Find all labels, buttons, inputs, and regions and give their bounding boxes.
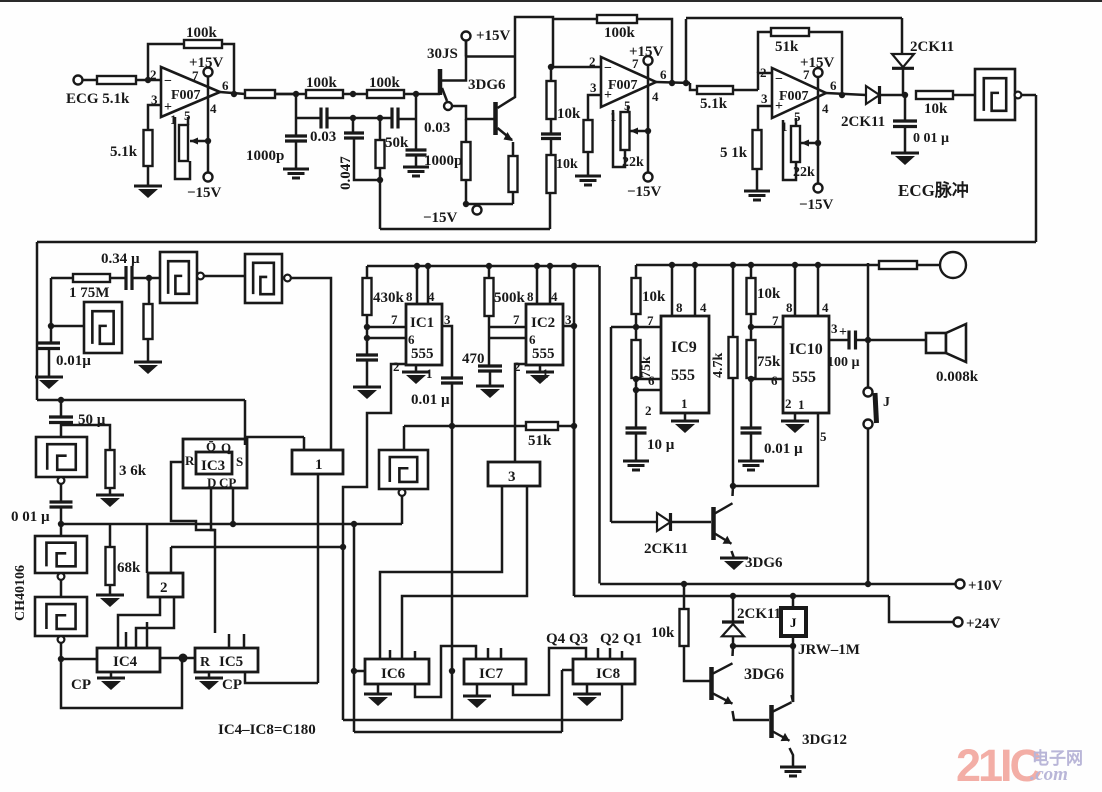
wire Q4 collector up	[792, 646, 794, 702]
node IC2 pin8 rail	[534, 263, 540, 269]
label IC2 pin1	[542, 366, 549, 381]
wire osc node left	[51, 277, 73, 280]
wire R1 to op-amp U1 pin2	[136, 79, 161, 82]
label 30JS	[427, 46, 458, 62]
wire IC2 pin4 stub	[549, 266, 552, 304]
resistor 50k	[376, 140, 385, 168]
schmitt trigger ECG out	[975, 69, 1021, 120]
wire y524 to IC6 col	[353, 524, 356, 732]
svg-text:ECG 5.1k: ECG 5.1k	[66, 91, 130, 107]
schmitt S5 out nub	[58, 477, 65, 484]
svg-text:51k: 51k	[775, 39, 799, 55]
U2 -15V terminal	[644, 173, 653, 182]
resistor 100k feedback U1	[184, 40, 222, 48]
label Q1	[623, 631, 642, 647]
wire IC9 pin4 stub	[694, 265, 697, 316]
IC4 box	[97, 648, 160, 672]
ground below 1000p second	[403, 167, 429, 176]
label IC10 pin4	[822, 300, 829, 315]
U1 +15V terminal	[204, 68, 213, 77]
wiper arrowhead U3	[801, 140, 809, 147]
wire diode to Q2 base	[671, 521, 712, 524]
IC5 box	[195, 648, 258, 672]
wire 1000p2 bottom	[415, 155, 418, 167]
potentiometer U3 offset	[791, 126, 800, 162]
svg-text:6: 6	[660, 67, 667, 82]
wire IC8 gnd stub	[586, 684, 589, 694]
svg-text:.com: .com	[1030, 761, 1068, 785]
wire 30JS top stub	[465, 40, 468, 57]
-15V terminal row1	[473, 206, 482, 215]
wire 75k IC10 down	[750, 378, 753, 428]
label 0.01u IC10	[764, 441, 803, 457]
wire box3 right bottom	[402, 486, 527, 659]
svg-text:5: 5	[820, 429, 827, 444]
wire IC4 stub d	[125, 632, 128, 648]
IC8 box	[573, 659, 635, 684]
svg-text:6: 6	[529, 332, 536, 347]
wire +24V branch	[889, 596, 953, 622]
label U1 minus	[164, 74, 172, 89]
wire 51k line to schmittD	[403, 426, 406, 450]
wire 3.6k top	[61, 425, 110, 450]
ground 10u	[623, 461, 649, 470]
wire 430k to pin7 node	[366, 315, 369, 355]
capacitor 50u	[49, 417, 73, 423]
label 100k U1 feedback	[186, 25, 218, 41]
transistor Q4 3DG12	[772, 702, 792, 741]
svg-text:10k: 10k	[651, 625, 675, 641]
label U3 -15V	[799, 197, 834, 213]
wire U2 output	[656, 82, 690, 83]
wire into IC4	[61, 658, 97, 661]
svg-text:3DG6: 3DG6	[745, 555, 783, 571]
label 50k	[385, 135, 409, 151]
wire IC1 pin1 stub	[415, 365, 418, 372]
wire 51k line	[404, 425, 574, 428]
wire S7 out down	[60, 643, 63, 659]
label U3 F007	[779, 89, 809, 104]
resistor 10k chain lower	[547, 155, 556, 193]
wire IC3 to box1	[245, 436, 304, 439]
watermark 21IC	[956, 740, 1042, 791]
wire bus y720	[343, 719, 622, 722]
wire IC1 pin8 stub	[416, 266, 419, 304]
label 75k IC9 rotated	[639, 356, 654, 378]
label U2 plus	[604, 88, 612, 103]
wire 5.1k to ground	[147, 166, 150, 186]
gate box 3	[488, 462, 540, 486]
wire IC1 pin2 path	[343, 364, 406, 720]
resistor 10k U2 pin3	[584, 120, 593, 152]
svg-text:−15V: −15V	[799, 197, 834, 213]
wire IC3 D riser	[211, 488, 215, 633]
label 10u	[647, 437, 675, 453]
svg-text:IC4: IC4	[113, 654, 138, 670]
svg-text:3: 3	[831, 321, 838, 336]
label 50u	[78, 412, 106, 428]
wire diode to node	[880, 94, 905, 97]
wire box2 up right	[170, 547, 173, 573]
capacitor 0.01u IC1 out	[441, 378, 463, 383]
svg-text:IC9: IC9	[671, 339, 697, 356]
schmitt S7 out nub	[58, 636, 65, 643]
capacitor 10u IC9	[626, 428, 647, 433]
label 10k IC10	[757, 286, 781, 302]
label IC2 555	[532, 346, 555, 362]
wire -15V link row1	[464, 203, 513, 206]
svg-text:4: 4	[822, 300, 829, 315]
label IC1 555	[411, 346, 434, 362]
wire to node A	[275, 93, 296, 96]
IC6 box	[365, 659, 429, 684]
label +15V 30JS	[476, 28, 511, 44]
node IC9 pin4 rail	[692, 262, 698, 268]
ground IC9 pin1	[671, 421, 699, 433]
schmitt trigger S5 vertical	[36, 437, 87, 477]
capacitor 0.01u IC10	[741, 428, 762, 433]
wire 75k to cap	[635, 378, 638, 428]
node flyback bottom	[730, 643, 736, 649]
svg-text:1: 1	[315, 457, 323, 473]
wire 10k3 to Q3 base	[684, 646, 711, 681]
schmitt S6 out nub	[58, 573, 65, 580]
label IC3 S	[236, 454, 243, 469]
wire 10k U2 to ground	[587, 152, 590, 176]
wire IC7 gnd stub	[476, 684, 479, 696]
svg-text:2CK11: 2CK11	[841, 114, 885, 130]
label U2 minus	[604, 61, 612, 76]
label 3DG6 Q3	[744, 666, 784, 683]
wire IC5 stub a	[228, 634, 231, 648]
svg-text:10 µ: 10 µ	[647, 437, 675, 453]
wire U3 pin3 down	[758, 106, 772, 130]
wire 30JS collector	[442, 40, 466, 81]
wire IC10 pin4 stub	[817, 265, 820, 316]
wire 0.01u ECG top	[904, 95, 907, 121]
svg-text:0.047: 0.047	[338, 156, 354, 190]
svg-text:Q1: Q1	[623, 631, 642, 647]
label U1 plus	[164, 100, 172, 115]
wire 551 top	[550, 67, 553, 81]
node IC2 pin3 tee	[571, 323, 577, 329]
svg-text:100k: 100k	[306, 75, 338, 91]
label 430k	[373, 290, 405, 306]
label 0.01u osc	[56, 353, 91, 369]
svg-text:2: 2	[589, 54, 596, 69]
resistor below emitter circle	[462, 142, 471, 180]
node IC9 pin2	[633, 387, 639, 393]
label IC1 pin6	[408, 332, 415, 347]
wire nodeA-nodeB	[296, 93, 306, 96]
svg-text:2CK11: 2CK11	[910, 39, 954, 55]
wire Q1 emitter down	[512, 142, 515, 156]
label IC10 pin6 6	[771, 373, 778, 388]
ground 0.01u osc	[35, 377, 63, 389]
label IC10 pin8	[786, 300, 793, 315]
wiper arrowhead U1	[190, 138, 198, 145]
label IC2 pin7	[513, 312, 520, 327]
wire Q2 emitter gnd	[732, 551, 735, 558]
capacitor 100u	[849, 331, 856, 350]
svg-text:0.03: 0.03	[424, 120, 450, 136]
svg-text:J: J	[790, 615, 797, 630]
wire Q3 collector up	[731, 646, 734, 656]
ground IC10 pin1	[781, 421, 809, 433]
transistor Q3 3DG6	[712, 663, 733, 704]
IC9 555 box	[661, 316, 709, 413]
wire 1.75M to cap	[110, 277, 126, 280]
wire cap to schmitt1	[132, 277, 160, 280]
label 0.03 second	[424, 120, 450, 136]
label 10k ECG out	[924, 101, 948, 117]
wire 10u to gnd	[635, 433, 638, 461]
label +24V	[966, 616, 1001, 632]
label 500k	[494, 290, 526, 306]
svg-text:R: R	[200, 655, 211, 670]
resistor 68k	[106, 547, 115, 585]
svg-text:555: 555	[792, 369, 816, 386]
label 51k mid	[528, 433, 552, 449]
node y524 junction left	[58, 521, 64, 527]
wire U1 output	[220, 92, 245, 94]
label 0.008k	[936, 369, 979, 385]
node +10V 684	[681, 581, 687, 587]
wire IC2 pin3 long vertical	[573, 266, 576, 596]
svg-text:Q2: Q2	[600, 631, 619, 647]
wiper arrow U3 pot	[801, 142, 815, 145]
label 1000p second	[424, 153, 462, 169]
wire node line y400	[37, 399, 245, 402]
label 3DG12	[802, 732, 847, 748]
node pin2 y547 join	[340, 544, 346, 550]
svg-text:IC7: IC7	[479, 666, 504, 682]
node IC6 input	[351, 668, 357, 674]
wire Q4 emitter down	[790, 748, 794, 767]
node U2 output	[669, 80, 675, 86]
wire 10k3 top	[683, 584, 686, 609]
wire S5 out down	[60, 484, 63, 502]
wire 10k IC10 top	[750, 265, 753, 278]
wire U2 pin3 down	[588, 95, 601, 120]
gate box 2	[148, 573, 183, 597]
svg-text:IC10: IC10	[789, 341, 823, 358]
wire into U2 pin2	[551, 66, 601, 69]
label U2 F007	[608, 78, 638, 93]
label U3 pin7	[803, 67, 810, 82]
svg-text:5 1k: 5 1k	[720, 145, 748, 161]
resistor R 5.1k input	[97, 76, 136, 84]
wire rail to +10V feed	[598, 266, 601, 584]
scan top edge line	[0, 0, 1102, 2]
svg-text:1 75M: 1 75M	[69, 285, 109, 301]
capacitor 0.047	[344, 133, 364, 138]
switch J top circle	[864, 388, 873, 397]
potentiometer U2 offset	[621, 112, 630, 150]
svg-text:1: 1	[681, 396, 688, 411]
node IC1 pin4 rail	[425, 263, 431, 269]
svg-text:0.01 µ: 0.01 µ	[764, 441, 803, 457]
wire IC7 stub b	[500, 648, 503, 659]
svg-text:S: S	[236, 454, 243, 469]
ground osc 148	[134, 362, 162, 374]
wire 68k top	[109, 524, 112, 547]
resistor 500k	[485, 278, 494, 316]
svg-text:−: −	[164, 74, 172, 89]
label IC2 pin3	[565, 312, 572, 327]
wire input to R1	[82, 79, 97, 82]
wire IC2 pin6	[489, 337, 526, 340]
wire U2 power vertical	[647, 65, 650, 172]
wire U3 pin1 loop	[783, 120, 796, 180]
node emitter res left	[463, 201, 469, 207]
transistor Q1 3DG6 bar	[493, 102, 498, 135]
resistor 100k a	[306, 90, 343, 98]
wire to schmitt S3	[51, 325, 84, 328]
svg-text:0.03: 0.03	[310, 129, 336, 145]
node U2 output to top	[683, 80, 689, 86]
ECG input terminal	[74, 76, 83, 85]
svg-text:4.7k: 4.7k	[711, 353, 726, 379]
wire filter line left	[296, 117, 321, 120]
svg-text:0 01 µ: 0 01 µ	[11, 509, 50, 525]
label IC4-IC8	[218, 722, 316, 738]
label 0.047	[338, 156, 354, 190]
capacitor 0.03 second	[392, 108, 398, 129]
label 100k b	[369, 75, 401, 91]
resistor 10k chain upper	[547, 81, 556, 119]
label IC10 pin5 5	[820, 429, 827, 444]
svg-text:JRW–1M: JRW–1M	[798, 642, 860, 658]
svg-text:4: 4	[210, 101, 217, 116]
U2 +15V terminal	[644, 56, 653, 65]
label IC9 pin4	[700, 300, 707, 315]
label U2 -15V	[627, 184, 662, 200]
label U1 pin7	[192, 68, 199, 83]
label U3 pin1	[781, 119, 788, 134]
wire 50u bottom	[60, 423, 63, 438]
label IC10 pin7 7	[772, 313, 779, 328]
label U2 pin5	[624, 98, 631, 113]
relay JRW-1M coil	[781, 608, 806, 636]
arrowhead Q1 emitter	[504, 132, 514, 141]
wire IC4 to IC5	[160, 657, 195, 660]
rail row2 right	[636, 264, 879, 267]
resistor 3.6k	[106, 450, 115, 488]
label IC2 pin2	[514, 359, 521, 374]
wire Q1 emitter res bottom	[512, 192, 515, 204]
svg-text:IC6: IC6	[381, 666, 406, 682]
svg-text:1: 1	[798, 397, 805, 412]
svg-text:8: 8	[406, 289, 413, 304]
node +10V 868	[865, 581, 871, 587]
svg-text:30JS: 30JS	[427, 46, 458, 62]
label 51k U3	[775, 39, 799, 55]
label 5 1k U3	[720, 145, 748, 161]
watermark .com	[1030, 761, 1068, 785]
ground IC5	[195, 678, 223, 690]
wire IC9 pin7	[611, 326, 661, 329]
label 5.1k U1	[110, 144, 138, 160]
wire Q1 emitter	[498, 128, 513, 140]
svg-text:430k: 430k	[373, 290, 405, 306]
label IC9 pin6 6	[648, 373, 655, 388]
schmitt trigger S2	[245, 254, 291, 303]
label IC2	[531, 315, 555, 331]
label 100k U2	[604, 25, 636, 41]
wire box1 bottom	[317, 474, 320, 683]
capacitor 0.03 first	[321, 108, 327, 129]
ground IC7	[463, 696, 491, 708]
wire IC8 input riser	[561, 670, 564, 732]
wire flyback diode bottom	[732, 637, 735, 647]
svg-text:10k: 10k	[556, 157, 578, 172]
svg-text:−: −	[775, 72, 783, 87]
transistor Q2 3DG6	[714, 503, 733, 543]
label 0.01u IC1	[411, 392, 450, 408]
node relay bottom	[790, 643, 796, 649]
node IC7 input	[449, 668, 455, 674]
label CH40106 rotated	[13, 565, 28, 621]
label JRW-1M	[798, 642, 860, 658]
label 3DG6 Q2	[745, 555, 783, 571]
wire IC10 pin6	[751, 378, 783, 381]
wire filter to nodeC leg	[398, 118, 416, 121]
wire 2CK11 shunt bottom	[902, 69, 905, 96]
wire IC10 pin5 path	[733, 413, 818, 486]
wire 0.01u osc bottom	[48, 349, 51, 378]
wire res to mic	[917, 264, 940, 267]
node U1 inverting input	[145, 77, 151, 83]
wire 50k bottom	[379, 168, 382, 229]
svg-text:2: 2	[393, 359, 400, 374]
wire 10k to 75k IC10	[750, 314, 753, 340]
wire U3 5.1k to ground	[756, 169, 759, 191]
wiper arrow U1 pot	[190, 140, 206, 143]
svg-text:−15V: −15V	[627, 184, 662, 200]
wire IC9 pin1 stub	[684, 413, 687, 421]
wire into IC6	[354, 670, 365, 673]
wire IC6 gnd stub	[377, 684, 380, 694]
emitter junction circle 30JS	[444, 102, 452, 110]
diode 2CK11 flyback	[722, 622, 744, 636]
svg-text:2: 2	[645, 403, 652, 418]
label U1 +15V	[189, 55, 224, 71]
wire box2 to IC4 a	[118, 597, 160, 648]
node U3 wiper	[815, 140, 821, 146]
svg-text:J: J	[883, 395, 890, 410]
wire S4 out down	[401, 496, 404, 524]
label IC9 pin2 2	[645, 403, 652, 418]
label 2CK11 flyback	[737, 606, 781, 622]
wire U3 feedback right	[809, 32, 842, 95]
label 68k	[117, 560, 141, 576]
ground below U3 5.1k	[744, 191, 770, 200]
svg-text:ECG脉冲: ECG脉冲	[898, 180, 969, 200]
wire 30JS emitter	[442, 88, 447, 101]
node IC10 pin4 rail	[815, 262, 821, 268]
label IC5 R	[200, 655, 211, 670]
ground IC4	[97, 678, 125, 690]
label U3 pin2	[760, 65, 767, 80]
label IC3 R	[185, 453, 195, 468]
svg-text:Q3: Q3	[569, 631, 588, 647]
wire 50k top	[379, 118, 382, 140]
node IC4 input	[58, 656, 64, 662]
svg-text:7: 7	[513, 312, 520, 327]
ground IC1 pin1	[402, 372, 430, 384]
label IC8	[596, 666, 620, 682]
